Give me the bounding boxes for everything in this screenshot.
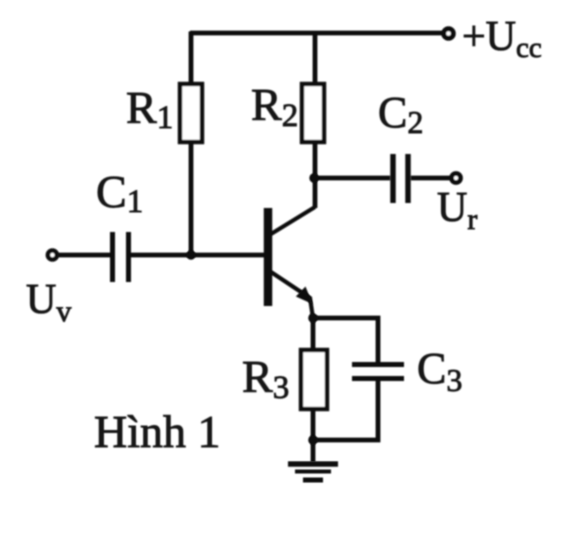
terminal Ur <box>452 174 461 183</box>
resistor R3 <box>301 350 327 409</box>
wire collector node to C2 <box>314 176 390 181</box>
transistor Q1 collector lead <box>271 207 315 234</box>
transistor Q1 base bar <box>264 208 273 306</box>
svg-text:C2: C2 <box>378 88 423 140</box>
wire emitter node to C3 branch <box>313 318 378 362</box>
wire Uv terminal to C1 <box>56 253 110 258</box>
terminal +Ucc <box>444 29 454 39</box>
junction ground node <box>308 435 318 445</box>
ground bar 2 <box>295 470 331 474</box>
wire R2 bottom to collector node <box>313 144 318 208</box>
capacitor C2 <box>390 154 396 203</box>
terminal Uv <box>48 251 57 260</box>
capacitor C1 <box>110 232 115 282</box>
ground bar 1 <box>288 461 338 467</box>
svg-text:Uv: Uv <box>26 277 71 328</box>
junction collector node <box>309 173 318 182</box>
svg-text:R3: R3 <box>242 351 289 406</box>
resistor R1 <box>180 84 202 142</box>
wire R1 top <box>189 32 194 85</box>
wire R3 to ground node <box>311 409 316 440</box>
wire R1 bottom to base node <box>189 144 194 255</box>
junction emitter node <box>308 313 318 323</box>
svg-text:C3: C3 <box>417 344 462 398</box>
svg-text:Ur: Ur <box>437 185 477 236</box>
svg-text:R1: R1 <box>126 82 173 136</box>
wire C3 bottom <box>313 381 378 440</box>
wire ground lead <box>311 440 316 462</box>
junction base node <box>186 250 195 259</box>
transistor Q1 emitter arrow <box>296 287 313 305</box>
resistor R2 <box>302 84 324 142</box>
wire R2 top <box>313 32 318 85</box>
wire top rail <box>190 31 448 36</box>
svg-text:+Ucc: +Ucc <box>462 14 542 64</box>
transistor Q1 emitter lead <box>271 272 313 318</box>
svg-text:R2: R2 <box>251 79 298 134</box>
wire emitter node to R3 <box>311 318 316 350</box>
ground bar 3 <box>303 478 323 483</box>
wire C1 to base <box>131 253 264 258</box>
wire C2 to Ur terminal <box>411 176 451 181</box>
svg-text:Hình 1: Hình 1 <box>94 406 221 457</box>
capacitor C3 <box>352 362 404 367</box>
svg-text:C1: C1 <box>96 166 143 220</box>
